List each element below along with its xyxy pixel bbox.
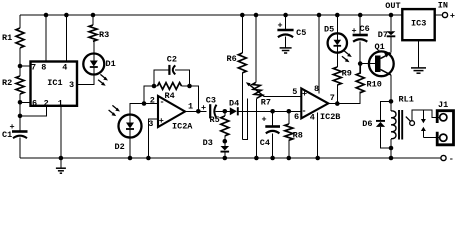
- svg-text:2: 2: [44, 99, 49, 109]
- wire left column: [19, 15, 21, 28]
- resistor R2: [2, 76, 24, 94]
- svg-text:R9: R9: [342, 69, 352, 79]
- svg-text:R3: R3: [99, 30, 109, 40]
- node D3 ground junction: [223, 156, 228, 161]
- wire R10 bottom (joins IC2B output wire): [359, 92, 361, 104]
- node C4 signal junction: [270, 109, 275, 114]
- wire OUT node to D7: [390, 15, 392, 31]
- svg-text:C6: C6: [360, 24, 370, 34]
- wire pin 3 to ground: [148, 119, 158, 158]
- diode D7: [378, 30, 396, 40]
- wire D5 to R9: [336, 53, 338, 67]
- svg-text:R10: R10: [367, 80, 382, 90]
- wire R7 wiper to pin 5: [264, 95, 301, 97]
- wire feedback left leg: [144, 86, 154, 104]
- svg-text:R1: R1: [2, 33, 12, 43]
- wire C2 right leg: [175, 70, 190, 86]
- wire IC2A output: [185, 110, 207, 112]
- resistor R5: [210, 111, 229, 136]
- svg-text:D6: D6: [362, 119, 372, 129]
- wire D2 bottom to rail: [129, 138, 131, 159]
- svg-text:8: 8: [314, 84, 319, 94]
- wire node to D4: [225, 110, 230, 112]
- node R8 signal junction: [287, 109, 292, 114]
- op-amp IC2B: [301, 88, 340, 122]
- wire R6 hook to R7 wiper: [242, 99, 247, 140]
- pin 2 label: [150, 95, 155, 105]
- svg-text:1: 1: [58, 99, 63, 109]
- svg-text:4: 4: [62, 63, 67, 73]
- photodiode D2: [115, 115, 142, 153]
- wire R9 to output node: [336, 85, 338, 104]
- diode D6: [362, 119, 385, 129]
- svg-text:IC2A: IC2A: [172, 121, 193, 131]
- node Q1 base junction: [358, 61, 363, 66]
- svg-text:R7: R7: [261, 98, 271, 108]
- wire D7 to Q1 collector: [390, 36, 392, 52]
- resistor R9: [333, 67, 352, 85]
- capacitor C6: [352, 24, 370, 42]
- svg-text:1: 1: [188, 101, 193, 111]
- svg-text:-: -: [302, 106, 307, 116]
- svg-text:C3: C3: [206, 95, 216, 105]
- wire pin 2: [20, 106, 46, 116]
- wire node to pin2 node: [19, 102, 21, 116]
- pin 1 label: [58, 99, 63, 109]
- svg-text:R8: R8: [293, 131, 303, 141]
- node C2 left: [152, 84, 157, 89]
- pin 2 label: [44, 99, 49, 109]
- relay RL1 core bars: [399, 110, 402, 140]
- terminal IN positive: [438, 1, 455, 21]
- resistor R1: [2, 28, 24, 48]
- svg-text:C1: C1: [2, 130, 12, 140]
- pin 4 label: [62, 63, 67, 73]
- node rail R7: [254, 13, 259, 18]
- capacitor C1: [2, 122, 28, 140]
- svg-text:6: 6: [32, 99, 37, 109]
- relay contact pivot: [406, 117, 415, 126]
- node pin7 junction: [18, 64, 23, 69]
- wire D3 to rail: [224, 152, 226, 158]
- node output R9 junction: [335, 101, 340, 106]
- svg-text:D2: D2: [115, 142, 125, 152]
- terminal minus: [441, 154, 454, 164]
- node C2 right: [187, 84, 192, 89]
- wire R5 to D3: [224, 136, 226, 146]
- node rail pin8: [44, 13, 49, 18]
- node R8 ground junction: [287, 156, 292, 161]
- pin 6 label: [294, 112, 299, 122]
- wire base node to Q1: [360, 63, 375, 65]
- node rail pin4: [64, 13, 69, 18]
- svg-text:D3: D3: [203, 138, 213, 148]
- svg-text:IC1: IC1: [47, 78, 62, 88]
- svg-text:OUT: OUT: [385, 1, 400, 11]
- pin 3 label: [148, 119, 153, 129]
- node R7 ground junction: [254, 156, 259, 161]
- wire pin 4 IC2B: [317, 113, 319, 158]
- op-amp IC2A: [158, 96, 193, 131]
- wire contact to J1 bottom: [423, 137, 439, 139]
- wire R2 to pin6 node: [19, 94, 21, 102]
- wire node to C1: [19, 116, 21, 131]
- svg-text:8: 8: [41, 63, 46, 73]
- LED D1: [83, 54, 115, 75]
- diode D4: [229, 99, 239, 116]
- svg-text:+: +: [201, 103, 206, 113]
- svg-text:+: +: [159, 116, 164, 126]
- node D6 relay bottom junction: [389, 146, 394, 151]
- wire rail to R7: [255, 15, 257, 83]
- svg-text:J1: J1: [438, 100, 448, 110]
- node relay ground junction: [389, 156, 394, 161]
- wire R7 bottom to ground rail: [255, 98, 257, 158]
- svg-text:IC2B: IC2B: [320, 112, 340, 122]
- svg-text:R6: R6: [227, 54, 237, 64]
- wire contact common to J1 top: [412, 110, 440, 121]
- svg-text:C2: C2: [167, 55, 177, 65]
- node D2 ground junction: [128, 156, 133, 161]
- LED D5: [324, 25, 347, 53]
- svg-text:3: 3: [148, 119, 153, 129]
- svg-text:D1: D1: [106, 59, 116, 69]
- wire pin 8 IC2B: [318, 15, 320, 94]
- svg-text:4: 4: [310, 113, 315, 123]
- wire R3 to D1: [92, 41, 95, 53]
- resistor R3: [89, 25, 109, 41]
- node output feedback junction: [196, 109, 201, 114]
- pin 7 label: [31, 63, 36, 73]
- ground symbol C5: [280, 48, 292, 53]
- node pin4 ground junction: [315, 156, 320, 161]
- wire C2 left leg: [154, 70, 169, 86]
- capacitor C5: [277, 21, 306, 38]
- node pin6 junction: [18, 100, 23, 105]
- LED D5 emission arrows: [342, 51, 352, 62]
- wire C6 to base node: [359, 42, 361, 64]
- resistor R6: [227, 53, 247, 73]
- svg-text:C5: C5: [296, 28, 306, 38]
- capacitor C4: [260, 111, 280, 158]
- wire R6 lower lead crossing signal: [241, 73, 243, 140]
- pin 8 label: [41, 63, 46, 73]
- svg-text:RL1: RL1: [399, 95, 414, 105]
- node rail R3: [91, 13, 96, 18]
- svg-text:2: 2: [150, 95, 155, 105]
- wire R1 to node: [19, 48, 21, 66]
- svg-text:D5: D5: [324, 25, 334, 35]
- pin 8 label: [314, 84, 319, 94]
- wire signal row to pin 6: [239, 110, 302, 112]
- node relay top junction: [389, 99, 394, 104]
- svg-text:+: +: [262, 114, 267, 124]
- svg-text:6: 6: [294, 112, 299, 122]
- svg-text:7: 7: [31, 63, 36, 73]
- label OUT: [385, 1, 400, 11]
- resistor R10: [356, 64, 382, 93]
- svg-text:-: -: [160, 97, 165, 107]
- wire D1 to pin 3: [77, 75, 94, 85]
- node C3 D4 R5 junction: [223, 109, 228, 114]
- LED D1 emission arrows: [98, 74, 108, 85]
- svg-text:D4: D4: [229, 99, 239, 109]
- IC timer IC1: [31, 62, 78, 106]
- node rail C5: [283, 13, 288, 18]
- wire IC2B output: [328, 92, 360, 104]
- node C4 ground junction: [270, 156, 275, 161]
- svg-text:5: 5: [292, 87, 297, 97]
- capacitor C2: [167, 55, 177, 75]
- pin 1 label: [188, 101, 193, 111]
- node R5 D3 junction: [223, 139, 228, 144]
- wire pin 8: [45, 15, 47, 62]
- pin 6 label: [32, 99, 37, 109]
- wire rail to IC3: [391, 14, 402, 16]
- wire rail to R3: [92, 15, 94, 25]
- node pin1 ground junction: [59, 156, 64, 161]
- svg-text:R2: R2: [2, 78, 12, 88]
- contact arrow lower: [421, 127, 426, 138]
- pin 3 label: [69, 80, 74, 90]
- node pin3 ground junction: [146, 156, 151, 161]
- wire D2 top to pin2 wire: [130, 104, 158, 115]
- wire Q1 emitter to relay node: [390, 75, 392, 101]
- wire top supply rail: [20, 14, 391, 16]
- ground symbol main: [56, 158, 66, 173]
- node pin2 junction: [18, 114, 23, 119]
- photodiode D2 incoming arrows: [109, 105, 120, 116]
- node rail pin8 IC2B: [317, 13, 322, 18]
- wire pin 6: [20, 101, 31, 103]
- wire rail to R6: [241, 15, 243, 53]
- pin 7 label: [330, 93, 335, 103]
- wire pin 1: [60, 106, 62, 158]
- voltage regulator IC3: [402, 9, 434, 40]
- node rail R6: [240, 13, 245, 18]
- node rail D5: [335, 13, 340, 18]
- svg-text:3: 3: [69, 80, 74, 90]
- wire C5 to ground: [285, 37, 287, 48]
- wire rail to D5: [336, 15, 338, 33]
- svg-text:-: -: [449, 154, 454, 164]
- wire bottom ground rail: [20, 157, 441, 159]
- wire feedback right leg: [190, 86, 199, 111]
- ground symbol IC3: [411, 68, 426, 73]
- wire C1 to ground rail: [19, 138, 21, 159]
- resistor R4: [154, 83, 190, 101]
- node rail OUT: [389, 13, 394, 18]
- connector J1: [437, 100, 453, 145]
- wire D6 branch top: [381, 101, 392, 121]
- svg-text:+: +: [450, 11, 455, 21]
- node feedback tap: [142, 101, 147, 106]
- svg-text:7: 7: [330, 93, 335, 103]
- svg-text:Q1: Q1: [375, 42, 385, 52]
- wire rail to C5: [285, 15, 287, 29]
- wire D6 bottom branch: [381, 127, 392, 148]
- contact arrow upper: [421, 110, 426, 123]
- transistor Q1: [369, 42, 394, 76]
- node rail C6: [358, 13, 363, 18]
- diode D3: [203, 138, 230, 152]
- wire node to R2: [19, 66, 21, 76]
- svg-text:+: +: [302, 89, 307, 99]
- wire IC3 to ground: [418, 40, 420, 67]
- pin 4 label: [310, 113, 315, 123]
- wire IC3 to IN terminal: [435, 14, 443, 16]
- svg-text:D7: D7: [378, 30, 388, 40]
- svg-text:IN: IN: [438, 1, 448, 11]
- resistor R8: [285, 111, 303, 158]
- wire rail to C6: [359, 15, 361, 34]
- svg-text:R5: R5: [210, 115, 220, 125]
- trimmer R7: [246, 82, 271, 107]
- wire C3 to node: [216, 110, 225, 112]
- pin 5 label: [292, 87, 297, 97]
- wire pin 7: [20, 65, 31, 67]
- wire pin 4: [65, 15, 67, 62]
- capacitor C3: [201, 95, 217, 118]
- svg-text:C4: C4: [260, 138, 270, 148]
- svg-text:IC3: IC3: [411, 19, 426, 29]
- relay RL1 coil: [391, 95, 414, 159]
